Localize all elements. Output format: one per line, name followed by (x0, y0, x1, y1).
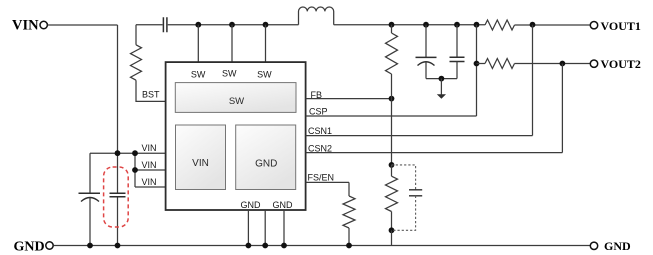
node SW riser 1 (195, 22, 201, 28)
wire R4 to VOUT1 terminal (515, 24, 591, 26)
capacitor C5 top lead (456, 25, 458, 58)
node VIN pin connector junction (132, 150, 138, 156)
wire node C to ground bus (391, 230, 393, 245)
GND terminal circle left (46, 242, 53, 249)
GND terminal circle right (590, 242, 597, 249)
pin label VIN 1 (142, 143, 157, 153)
node VIN rail / row junction (115, 150, 121, 156)
wire VIN pin 2 stub (135, 169, 166, 171)
pin label SW 3 (257, 69, 272, 79)
svg-text:GND: GND (255, 158, 277, 169)
svg-text:CSN2: CSN2 (308, 143, 332, 153)
pin label CSN1 (308, 126, 332, 136)
node GND pin 1 on ground bus (246, 243, 252, 249)
pin label CSP (309, 107, 328, 117)
node sense common on rail (474, 22, 480, 28)
wire FS/EN to R6 (348, 182, 350, 196)
pin label GND bottom 1 (241, 200, 262, 210)
U1 internal VIN block (176, 125, 226, 190)
svg-text:SW: SW (222, 69, 237, 79)
wire BST vertical to resistor R1 (135, 25, 137, 45)
node C4 tap on rail (423, 22, 429, 28)
node GND pin 3 on ground bus (281, 243, 287, 249)
capacitor C1 bottom lead (89, 198, 91, 246)
pin label SW 1 (191, 69, 206, 79)
node FB (389, 96, 395, 102)
red dashed highlight box around C2 (104, 167, 129, 227)
wire VIN pin connector vertical (134, 153, 136, 187)
wire SW riser 1 (197, 25, 199, 62)
node C5 tap on rail (454, 22, 460, 28)
VOUT1 terminal circle (590, 22, 597, 29)
wire GND pin 1 (247, 210, 249, 246)
svg-text:CSN1: CSN1 (308, 126, 332, 136)
wire CSN1 vertical to VOUT1 (532, 25, 534, 136)
svg-text:VIN: VIN (12, 18, 39, 34)
svg-text:SW: SW (191, 69, 206, 79)
VOUT2 terminal circle (590, 60, 597, 67)
wire R3 to node C (391, 212, 393, 231)
GND terminal label left (14, 239, 45, 254)
wire R2 to FB node and down to node B (391, 74, 393, 165)
U1 internal SW block (175, 83, 296, 113)
wire VIN terminal to VIN rail corner (48, 24, 118, 26)
capacitor C4 top lead (425, 25, 427, 58)
svg-text:GND: GND (604, 239, 631, 253)
wire CSN1 row (306, 135, 533, 137)
wire FB row (306, 98, 392, 100)
svg-text:VIN: VIN (142, 143, 157, 153)
wire VIN pin 1 stub (135, 152, 166, 154)
U1 internal GND block (236, 125, 296, 190)
resistor R1 (BST) (131, 45, 142, 80)
wire VIN rail vertical (x=117.5) upper segment (117, 25, 119, 153)
capacitor C5 (ceramic output cap) (450, 57, 465, 61)
wire divider vertical upper (rail to R2) (391, 25, 393, 33)
wire CSN2 vertical to VOUT2 (561, 64, 563, 153)
VOUT1 terminal label (601, 19, 641, 33)
pin label BST (142, 89, 160, 99)
capacitor C2 (input cap inside red dashed highlight) (110, 193, 126, 197)
resistor R5 (VOUT2 sense) (485, 59, 515, 69)
capacitor C1 top lead (89, 153, 91, 193)
pin label VIN 2 (142, 160, 157, 170)
pin label CSN2 (308, 143, 332, 153)
optional capacitor C7 dashed branch bottom (392, 196, 416, 231)
svg-text:GND: GND (14, 239, 45, 254)
wire sense common vertical (rail to CSP) (476, 25, 478, 116)
node VIN pin 2 junction (132, 167, 138, 173)
pin label FS/EN (308, 173, 335, 183)
IC U1 outline (166, 62, 306, 210)
svg-text:VIN: VIN (142, 160, 157, 170)
wire BST top segment (y=24.7 left of C3) (136, 24, 163, 26)
node C2 on ground bus (115, 243, 121, 249)
wire joining C4 and C5 bottoms (426, 78, 457, 80)
wire VOUT1 rail (inductor to R4) (334, 24, 485, 26)
node GND pin 2 on ground bus (262, 243, 268, 249)
svg-text:VIN: VIN (142, 177, 157, 187)
inductor L1 (299, 7, 334, 25)
pin label GND bottom 2 (273, 200, 294, 210)
resistor R3 (feedback bottom) (386, 176, 398, 211)
wire FS/EN row (306, 181, 349, 183)
ground arrow symbol (437, 79, 446, 99)
wire GND pin 3 (283, 210, 285, 246)
svg-text:GND: GND (241, 200, 262, 210)
svg-text:SW: SW (229, 96, 244, 107)
wire SW node top rail (C3 to inductor) (168, 24, 299, 26)
capacitor C3 (bootstrap cap) (163, 17, 167, 32)
node CSN1 tap on rail (530, 22, 536, 28)
node C (bottom of R3) (389, 227, 395, 233)
node CSN2 tap on VOUT2 row (560, 61, 566, 67)
capacitor C4 (polarized output cap) (416, 57, 437, 65)
pin label FB (311, 90, 323, 100)
capacitor C1 (polarized input bulk cap) (79, 193, 101, 201)
VIN terminal label (12, 18, 39, 34)
wire SW riser 3 (265, 25, 267, 62)
svg-text:VOUT2: VOUT2 (601, 57, 641, 71)
pin label VIN 3 (142, 177, 157, 187)
VOUT2 terminal label (601, 57, 641, 71)
svg-text:VIN: VIN (192, 158, 209, 169)
wire R1 to BST pin (136, 80, 166, 101)
svg-text:SW: SW (257, 69, 272, 79)
resistor R6 (FS/EN) (343, 196, 355, 228)
node R6 on ground bus (346, 243, 352, 249)
wire VIN rail through input cap C2 lower lead (117, 197, 119, 246)
node sense common / VOUT2 row (474, 61, 480, 67)
wire CSP row (306, 115, 477, 117)
wire node B to R3 (391, 165, 393, 176)
capacitor C4 bottom lead (425, 62, 427, 79)
wire ground bus (53, 245, 590, 247)
wire VIN rail through input cap C2 upper lead (117, 153, 119, 193)
optional capacitor C7 dashed branch top (392, 165, 416, 190)
node C1 on ground bus (87, 243, 93, 249)
pin label SW 2 (222, 69, 237, 79)
svg-text:BST: BST (142, 89, 160, 99)
resistor R2 (feedback top) (386, 33, 398, 74)
wire R5 to VOUT2 terminal (515, 63, 591, 65)
resistor R4 (VOUT1 sense) (485, 20, 515, 30)
wire VOUT2 row to R5 (477, 63, 486, 65)
svg-text:VOUT1: VOUT1 (601, 19, 641, 33)
node divider tap on rail (389, 22, 395, 28)
wire GND pin 2 (264, 210, 266, 246)
node output cap ground junction (439, 76, 445, 82)
VIN terminal circle (40, 21, 47, 28)
wire VIN pin 3 stub (135, 186, 166, 188)
node B (top of R3) (389, 162, 395, 168)
node SW riser 2 (229, 22, 235, 28)
wire R6 to ground bus (348, 228, 350, 246)
node SW riser 3 (263, 22, 269, 28)
svg-text:GND: GND (273, 200, 294, 210)
GND terminal label right (604, 239, 631, 253)
wire SW riser 2 (231, 25, 233, 62)
svg-text:CSP: CSP (309, 107, 328, 117)
capacitor C7 (optional, dashed) (409, 190, 422, 196)
wire VIN row y=152 from C1 top to pin connector (90, 152, 135, 154)
svg-text:FS/EN: FS/EN (308, 173, 335, 183)
capacitor C5 bottom lead (456, 62, 458, 79)
wire CSN2 row (306, 152, 563, 154)
